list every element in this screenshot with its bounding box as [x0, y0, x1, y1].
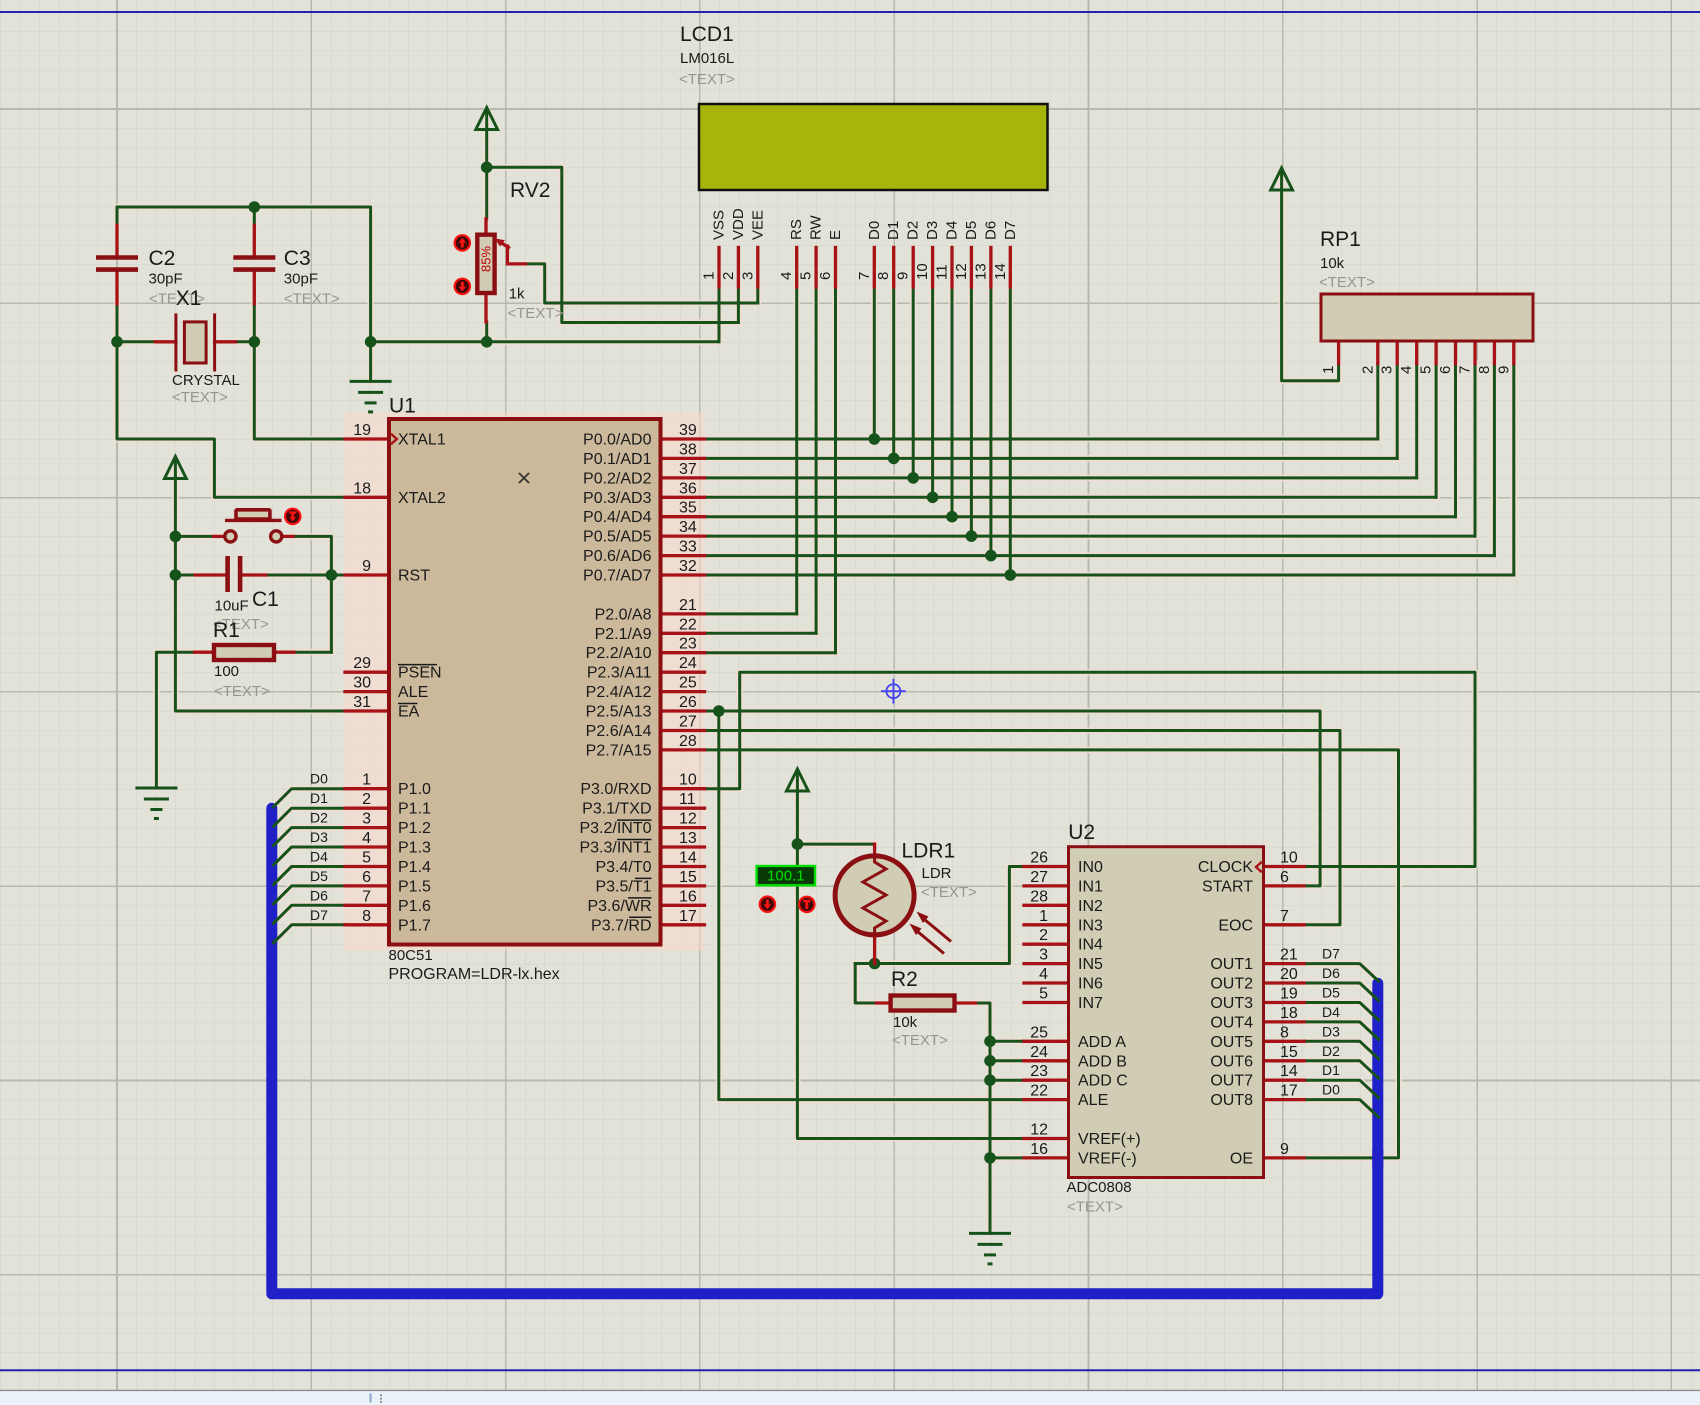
svg-text:VEE: VEE	[749, 210, 766, 240]
svg-text:25: 25	[1030, 1024, 1048, 1041]
LDR1 photoresistor	[835, 844, 951, 963]
svg-text:23: 23	[679, 636, 697, 653]
junction D0 on P0.0	[869, 433, 881, 445]
RV2 up icon	[454, 234, 472, 252]
U1 PSEN overline	[398, 664, 437, 666]
svg-text:RW: RW	[808, 214, 825, 240]
svg-text:24: 24	[1030, 1044, 1048, 1061]
svg-text:P2.1/A9: P2.1/A9	[595, 626, 652, 643]
svg-text:D5: D5	[963, 221, 980, 240]
svg-text:22: 22	[1030, 1083, 1048, 1100]
svg-text:IN6: IN6	[1078, 976, 1103, 993]
wire U2 OUT5 to bus (D3)	[1304, 1041, 1379, 1059]
svg-text:D3: D3	[310, 829, 328, 845]
svg-text:D6: D6	[310, 887, 328, 903]
svg-text:D7: D7	[310, 907, 328, 923]
wire net P2.0/A8 to LCD RS	[705, 287, 797, 614]
svg-text:P0.7/AD7: P0.7/AD7	[583, 568, 652, 585]
svg-text:P2.7/A15: P2.7/A15	[586, 742, 652, 759]
svg-text:RS: RS	[788, 219, 805, 240]
svg-text:ALE: ALE	[1078, 1092, 1108, 1109]
junction C1 left	[170, 569, 182, 581]
svg-text:ADD A: ADD A	[1078, 1034, 1126, 1051]
RP1 pin stubs 1-9	[1339, 341, 1514, 364]
svg-text:<TEXT>: <TEXT>	[172, 389, 228, 406]
svg-text:C2: C2	[149, 247, 176, 270]
svg-text:D7: D7	[1322, 946, 1340, 962]
svg-text:18: 18	[1280, 1005, 1298, 1022]
svg-text:8: 8	[875, 272, 892, 280]
wire net VCC: LDR1 top and U2 VREF(+)	[797, 791, 1024, 1139]
svg-text:100.1: 100.1	[767, 868, 805, 885]
svg-text:P0.6/AD6: P0.6/AD6	[583, 548, 652, 565]
svg-text:D2: D2	[905, 221, 922, 240]
junction ADD A	[984, 1036, 996, 1048]
svg-text:9: 9	[362, 558, 371, 575]
wire U1 P1.4 to bus (D4)	[274, 867, 346, 885]
svg-text:EA: EA	[398, 704, 420, 721]
svg-text:P1.4: P1.4	[398, 859, 431, 876]
svg-text:D6: D6	[1322, 965, 1340, 981]
svg-text:17: 17	[679, 908, 697, 925]
svg-text:15: 15	[679, 869, 697, 886]
svg-text:P2.6/A14: P2.6/A14	[586, 723, 652, 740]
svg-text:2: 2	[1039, 927, 1048, 944]
RP1 pin numbers (rotated)	[1320, 366, 1512, 374]
svg-text:10: 10	[914, 263, 931, 280]
svg-text:10: 10	[1280, 849, 1298, 866]
push button (reset)	[214, 510, 294, 542]
wire net VCC: button left, C1 left, U1 EA	[175, 478, 345, 711]
svg-text:IN2: IN2	[1078, 898, 1103, 915]
ground symbol below U2	[969, 1233, 1011, 1264]
junction D6 on P0.6	[985, 550, 997, 562]
junction D4 on P0.4	[946, 511, 958, 523]
junction D5 on P0.5	[966, 530, 978, 542]
svg-text:P2.5/A13: P2.5/A13	[586, 704, 652, 721]
svg-text:14: 14	[1280, 1063, 1298, 1080]
svg-text:IN1: IN1	[1078, 878, 1103, 895]
svg-text:7: 7	[856, 272, 873, 280]
svg-text:36: 36	[679, 480, 697, 497]
svg-text:D5: D5	[1322, 984, 1340, 1000]
svg-text:10uF: 10uF	[215, 598, 249, 615]
power symbol left (reset circuit)	[165, 457, 187, 479]
svg-text:CLOCK: CLOCK	[1198, 859, 1253, 876]
svg-text:D7: D7	[1002, 221, 1019, 240]
svg-text:9: 9	[1280, 1141, 1289, 1158]
svg-text:P0.4/AD4: P0.4/AD4	[583, 509, 652, 526]
wire U2 OUT2 to bus (D6)	[1304, 983, 1379, 1001]
U1 selection highlight	[344, 412, 705, 951]
svg-text:C3: C3	[284, 247, 311, 270]
svg-text:PROGRAM=LDR-lx.hex: PROGRAM=LDR-lx.hex	[389, 966, 560, 983]
svg-text:10k: 10k	[893, 1014, 918, 1031]
svg-text:OE: OE	[1230, 1150, 1253, 1167]
svg-text:1k: 1k	[509, 285, 525, 302]
svg-text:ALE: ALE	[398, 684, 428, 701]
svg-text:11: 11	[679, 791, 696, 808]
svg-text:D2: D2	[310, 810, 328, 826]
junction D7 on P0.7	[1005, 569, 1017, 581]
svg-text:14: 14	[679, 849, 697, 866]
wire U1 P1.7 to bus (D7)	[274, 925, 346, 943]
svg-text:3: 3	[1379, 366, 1396, 374]
svg-text:7: 7	[1457, 366, 1474, 374]
net labels D0-D7 at U1	[310, 771, 328, 923]
wire U2 OUT6 to bus (D2)	[1304, 1061, 1379, 1079]
svg-text:12: 12	[1030, 1121, 1048, 1138]
U1 WR overline	[628, 897, 652, 899]
junction ground node at x=370	[365, 336, 377, 348]
wire net ground: C2/C3 tops, RV2 bottom, LCD VSS	[117, 207, 719, 381]
svg-text:<TEXT>: <TEXT>	[1067, 1199, 1123, 1216]
svg-text:29: 29	[353, 655, 371, 672]
LCD1 pin name labels (rotated)	[711, 208, 1019, 240]
wire U2 OUT8 to bus (D0)	[1304, 1100, 1379, 1118]
svg-text:80C51: 80C51	[389, 947, 433, 964]
svg-text:P0.1/AD1: P0.1/AD1	[583, 451, 652, 468]
junction LDR bottom	[869, 958, 881, 970]
svg-text:27: 27	[679, 713, 697, 730]
svg-text:P1.0: P1.0	[398, 781, 431, 798]
svg-text:16: 16	[679, 888, 697, 905]
svg-text:XTAL2: XTAL2	[398, 490, 446, 507]
svg-text:VREF(-): VREF(-)	[1078, 1150, 1137, 1167]
svg-text:21: 21	[1280, 947, 1298, 964]
wire net VCC to RP1 pin1	[1282, 190, 1339, 381]
svg-text:P0.2/AD2: P0.2/AD2	[583, 470, 652, 487]
wire net XTAL1: C3 bottom, crystal right, U1 pin19	[235, 304, 345, 439]
svg-text:VREF(+): VREF(+)	[1078, 1131, 1141, 1148]
svg-text:<TEXT>: <TEXT>	[921, 884, 977, 901]
svg-text:10k: 10k	[1320, 255, 1345, 272]
LDR1 value readout 100.1	[757, 866, 815, 885]
svg-text:D1: D1	[1322, 1062, 1340, 1078]
wire U1 P1.0 to bus (D0)	[274, 789, 346, 807]
svg-text:D3: D3	[924, 221, 941, 240]
power symbol above RV2	[476, 108, 498, 130]
U1 INT0 overline	[617, 819, 652, 821]
svg-text:VDD: VDD	[730, 208, 747, 240]
wire halo layer	[117, 112, 1514, 1234]
svg-text:P1.2: P1.2	[398, 820, 431, 837]
svg-text:4: 4	[1039, 966, 1048, 983]
svg-text:P2.2/A10: P2.2/A10	[586, 645, 652, 662]
svg-text:20: 20	[1280, 966, 1298, 983]
junction D3 on P0.3	[927, 492, 939, 504]
svg-text:D0: D0	[866, 221, 883, 240]
U1 pin names right	[579, 432, 651, 935]
svg-text:P3.4/T0: P3.4/T0	[595, 859, 651, 876]
svg-text:P2.3/A11: P2.3/A11	[587, 665, 652, 682]
capacitor C3	[233, 225, 275, 303]
svg-text:32: 32	[679, 558, 697, 575]
U2 right pin stubs	[1264, 867, 1305, 1158]
svg-text:9: 9	[895, 272, 912, 280]
svg-text:P3.6/WR: P3.6/WR	[587, 898, 651, 915]
svg-text:5: 5	[798, 272, 815, 280]
svg-text:19: 19	[353, 422, 371, 439]
wire net P0.2/AD2: U1 to LCD D2 and RP1 pin4	[705, 287, 1417, 478]
wire U1 P1.3 to bus (D3)	[274, 847, 346, 865]
svg-text:7: 7	[362, 888, 371, 905]
svg-text:2: 2	[720, 272, 737, 280]
svg-text:26: 26	[1030, 849, 1048, 866]
svg-text:IN0: IN0	[1078, 859, 1103, 876]
svg-text:24: 24	[679, 655, 697, 672]
svg-text:P3.0/RXD: P3.0/RXD	[580, 781, 651, 798]
svg-text:38: 38	[679, 441, 697, 458]
svg-text:8: 8	[1476, 366, 1493, 374]
wire net P0.0/AD0: U1 to LCD D0 and RP1 pin2	[705, 287, 1378, 439]
svg-text:D3: D3	[1322, 1023, 1340, 1039]
svg-text:5: 5	[362, 849, 371, 866]
svg-text:10: 10	[679, 772, 697, 789]
svg-text:OUT5: OUT5	[1210, 1034, 1253, 1051]
svg-text:VSS: VSS	[711, 210, 728, 240]
IC U1 80C51 body	[389, 419, 661, 945]
origin marker (blue crosshair)	[881, 679, 906, 704]
svg-text:RST: RST	[398, 568, 430, 585]
potentiometer RV2	[477, 219, 525, 322]
U1 pin names left	[398, 432, 446, 935]
svg-text:8: 8	[362, 908, 371, 925]
svg-text:D4: D4	[1322, 1004, 1340, 1020]
junction RV2 top / VCC	[481, 162, 493, 174]
junction ADD C	[984, 1074, 996, 1086]
svg-text:CRYSTAL: CRYSTAL	[172, 372, 240, 389]
wire net P2.6/A14 to U2 EOC	[705, 731, 1341, 925]
junction LDR top / VREF+	[792, 838, 804, 850]
svg-text:7: 7	[1280, 908, 1289, 925]
svg-text:RV2: RV2	[510, 179, 550, 202]
sheet border top (blue)	[0, 11, 1700, 13]
svg-text:<TEXT>: <TEXT>	[892, 1032, 948, 1049]
svg-text:P2.4/A12: P2.4/A12	[586, 684, 652, 701]
svg-text:21: 21	[679, 597, 697, 614]
svg-text:D6: D6	[982, 221, 999, 240]
svg-text:P0.5/AD5: P0.5/AD5	[583, 529, 652, 546]
svg-text:U2: U2	[1068, 821, 1095, 844]
svg-text:1: 1	[362, 772, 371, 789]
svg-text:39: 39	[679, 422, 697, 439]
svg-text:P1.1: P1.1	[398, 801, 431, 818]
svg-text:ADC0808: ADC0808	[1067, 1179, 1132, 1196]
wire U2 OUT1 to bus (D7)	[1304, 964, 1379, 982]
resistor R1	[195, 645, 294, 660]
svg-text:P0.3/AD3: P0.3/AD3	[583, 490, 652, 507]
svg-text:D2: D2	[1322, 1043, 1340, 1059]
LCD1 display (LM016L)	[699, 104, 1048, 190]
svg-text:15: 15	[1280, 1044, 1298, 1061]
wire net P2.5/A13 to U2 START and U2 ALE	[705, 711, 1321, 1100]
U1 right pin stubs	[661, 439, 705, 925]
wire net P0.4/AD4: U1 to LCD D4 and RP1 pin6	[705, 287, 1456, 517]
svg-text:19: 19	[1280, 985, 1298, 1002]
svg-text:X1: X1	[176, 287, 202, 310]
junction P2.5 / ALE branch	[713, 705, 725, 717]
wire net P2.1/A9 to LCD RW	[705, 287, 817, 633]
junction D2 on P0.2	[907, 472, 919, 484]
svg-text:14: 14	[992, 263, 1009, 280]
U1 internal x mark	[519, 473, 529, 483]
svg-text:P1.3: P1.3	[398, 840, 431, 857]
svg-text:34: 34	[679, 519, 697, 536]
wire net VCC to RV2 top and LCD VDD	[487, 131, 739, 323]
wire net P0.1/AD1: U1 to LCD D1 and RP1 pin3	[705, 287, 1398, 458]
svg-text:IN3: IN3	[1078, 917, 1103, 934]
svg-text:26: 26	[679, 694, 697, 711]
svg-text:E: E	[827, 230, 844, 240]
svg-text:P1.7: P1.7	[398, 917, 431, 934]
bus D0-D7 (thick blue)	[272, 808, 1378, 1294]
svg-text:D1: D1	[310, 790, 328, 806]
wire net P0.7/AD7: U1 to LCD D7 and RP1 pin9	[705, 287, 1514, 575]
svg-text:30pF: 30pF	[284, 271, 318, 288]
bottom scrollbar strip	[0, 1390, 1700, 1405]
wire U2 OUT7 to bus (D1)	[1304, 1080, 1379, 1098]
svg-text:18: 18	[353, 480, 371, 497]
svg-text:ADD C: ADD C	[1078, 1073, 1128, 1090]
svg-text:LDR1: LDR1	[902, 840, 956, 863]
svg-text:LCD1: LCD1	[680, 23, 734, 46]
svg-text:ADD B: ADD B	[1078, 1053, 1127, 1070]
wire U1 P1.5 to bus (D5)	[274, 886, 346, 904]
ground symbol near U1 top	[350, 381, 392, 412]
IC U2 ADC0808 body	[1069, 847, 1264, 1178]
U1 RD overline	[629, 916, 652, 918]
svg-text:OUT3: OUT3	[1210, 995, 1253, 1012]
power symbol above RP1	[1271, 168, 1293, 190]
svg-text:P3.7/RD: P3.7/RD	[591, 917, 651, 934]
U1 T1 overline	[635, 877, 652, 879]
svg-text:OUT2: OUT2	[1210, 976, 1253, 993]
svg-text:<TEXT>: <TEXT>	[508, 305, 564, 322]
svg-text:R1: R1	[213, 619, 240, 642]
svg-text:P3.3/INT1: P3.3/INT1	[579, 840, 651, 857]
svg-text:4: 4	[778, 272, 795, 280]
svg-text:P1.5: P1.5	[398, 878, 431, 895]
svg-text:6: 6	[362, 869, 371, 886]
svg-text:D0: D0	[1322, 1082, 1340, 1098]
svg-text:D4: D4	[944, 221, 961, 240]
wire net R1 to ground	[156, 652, 194, 788]
bus segment over OE wire crossing	[1372, 1150, 1383, 1167]
U1 pin numbers left	[353, 422, 371, 925]
svg-text:IN4: IN4	[1078, 937, 1103, 954]
svg-text:IN5: IN5	[1078, 956, 1103, 973]
wire net P0.5/AD5: U1 to LCD D5 and RP1 pin7	[705, 287, 1476, 536]
junction ADD B	[984, 1055, 996, 1067]
svg-text:12: 12	[953, 263, 970, 280]
wire net RV2 wiper to LCD VEE	[525, 264, 757, 303]
svg-text:1: 1	[701, 272, 718, 280]
svg-text:P1.6: P1.6	[398, 898, 431, 915]
wire net P2.7/A15 to U2 OE	[705, 750, 1399, 1158]
svg-text:<TEXT>: <TEXT>	[1319, 274, 1375, 291]
U2 left pin stubs	[1024, 867, 1069, 1158]
crystal X1	[155, 313, 235, 371]
svg-text:11: 11	[934, 264, 951, 280]
wire net R2 to ground, ADD A/B/C, VREF(-)	[975, 1003, 1024, 1233]
svg-text:OUT8: OUT8	[1210, 1092, 1253, 1109]
svg-text:IN7: IN7	[1078, 995, 1103, 1012]
wire net RST: button right, C1 right, R1 right, U1 RST	[266, 536, 345, 652]
svg-text:6: 6	[817, 272, 834, 280]
svg-text:4: 4	[1398, 366, 1415, 374]
U1 EA overline	[398, 703, 418, 705]
wire U2 OUT4 to bus (D4)	[1304, 1022, 1379, 1040]
svg-text:5: 5	[1418, 366, 1435, 374]
svg-text:3: 3	[739, 272, 756, 280]
svg-text:13: 13	[679, 830, 697, 847]
svg-text:<TEXT>: <TEXT>	[214, 683, 270, 700]
svg-text:C1: C1	[252, 588, 279, 611]
svg-text:OUT6: OUT6	[1210, 1053, 1253, 1070]
RV2 down icon	[454, 278, 472, 296]
U2 pin numbers left	[1030, 849, 1048, 1157]
junction D1 on P0.1	[888, 453, 900, 465]
junction C3 bottom / crystal right	[249, 336, 261, 348]
svg-text:27: 27	[1030, 869, 1048, 886]
svg-text:5: 5	[1039, 985, 1048, 1002]
junction C3 top	[249, 201, 261, 213]
svg-text:LM016L: LM016L	[680, 50, 734, 67]
svg-text:25: 25	[679, 675, 697, 692]
junction VREF(-)	[984, 1152, 996, 1164]
svg-text:RP1: RP1	[1320, 228, 1361, 251]
svg-text:23: 23	[1030, 1063, 1048, 1080]
U2 pin numbers right	[1280, 849, 1298, 1157]
svg-text:D5: D5	[310, 868, 328, 884]
svg-text:4: 4	[362, 830, 371, 847]
svg-text:17: 17	[1280, 1083, 1298, 1100]
svg-text:85%: 85%	[479, 246, 494, 272]
U2 CLOCK pin arrow	[1256, 862, 1262, 872]
wire U2 OUT3 to bus (D5)	[1304, 1003, 1379, 1021]
power symbol above LDR1	[787, 769, 809, 791]
svg-text:28: 28	[1030, 888, 1048, 905]
wire net P0.6/AD6: U1 to LCD D6 and RP1 pin8	[705, 287, 1495, 556]
wire U1 P1.6 to bus (D6)	[274, 905, 346, 923]
svg-text:3: 3	[362, 811, 371, 828]
U1 left pin stubs	[345, 439, 389, 925]
svg-text:13: 13	[972, 263, 989, 280]
svg-text:D4: D4	[310, 848, 328, 864]
svg-text:35: 35	[679, 500, 697, 517]
junction button left	[170, 531, 182, 543]
svg-text:1: 1	[1039, 908, 1048, 925]
push button actuator icon	[284, 508, 302, 526]
svg-text:EOC: EOC	[1218, 917, 1253, 934]
wire net P0.3/AD3: U1 to LCD D3 and RP1 pin5	[705, 287, 1437, 497]
junction RST node	[326, 569, 338, 581]
U2 pin names left	[1078, 859, 1141, 1167]
svg-text:6: 6	[1437, 366, 1454, 374]
wire net LDR1 bottom to U2 IN0 and R2	[855, 867, 1024, 1004]
LDR1 down icon	[759, 895, 777, 913]
svg-text:37: 37	[679, 461, 697, 478]
svg-text:R2: R2	[891, 968, 918, 991]
svg-text:P3.1/TXD: P3.1/TXD	[582, 801, 651, 818]
U1 INT1 overline	[617, 839, 652, 841]
svg-text:P0.0/AD0: P0.0/AD0	[583, 432, 652, 449]
wire net XTAL2: C2 bottom, crystal left, U1 pin18	[117, 304, 345, 498]
capacitor C2	[96, 225, 138, 303]
svg-text:START: START	[1202, 878, 1253, 895]
svg-text:6: 6	[1280, 869, 1289, 886]
